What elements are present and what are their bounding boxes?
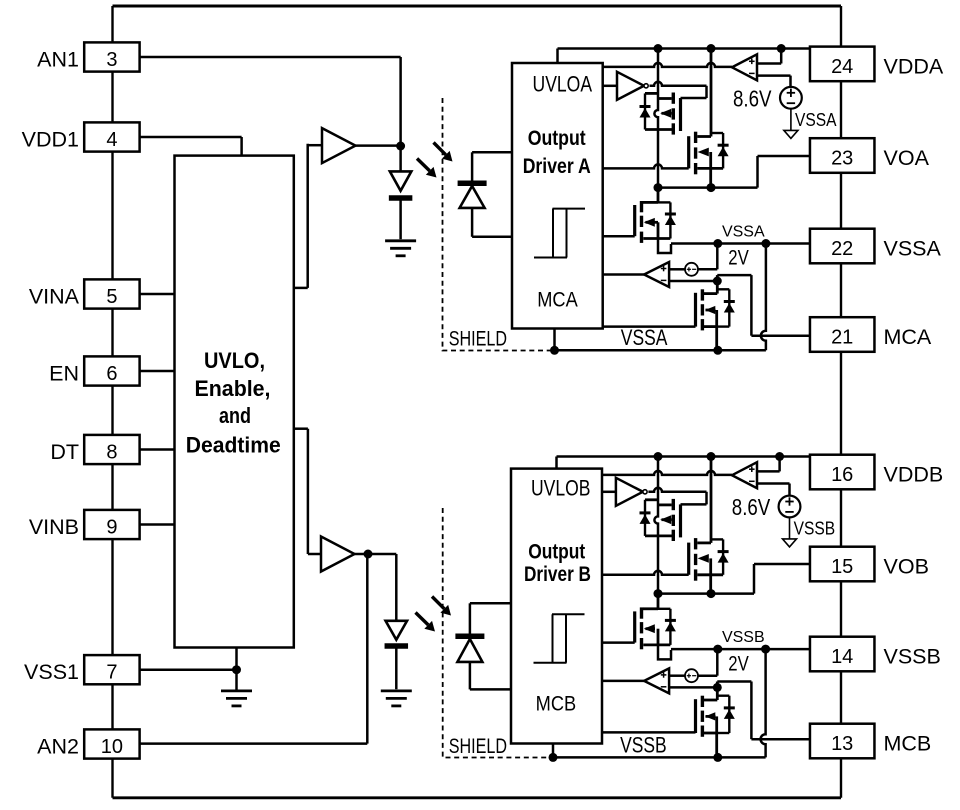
svg-text:VSSB: VSSB	[620, 732, 667, 757]
svg-text:Driver A: Driver A	[523, 154, 591, 178]
svg-text:10: 10	[101, 736, 123, 758]
svg-text:2V: 2V	[728, 653, 749, 676]
svg-text:3: 3	[106, 49, 117, 71]
svg-text:MCB: MCB	[884, 731, 932, 755]
svg-text:VSSB: VSSB	[722, 629, 765, 646]
svg-text:DT: DT	[50, 440, 79, 464]
svg-text:UVLOB: UVLOB	[531, 475, 591, 500]
svg-text:UVLO,: UVLO,	[204, 348, 265, 373]
svg-text:7: 7	[106, 662, 117, 684]
svg-text:VOB: VOB	[884, 554, 929, 578]
svg-text:MCA: MCA	[537, 289, 578, 312]
svg-text:UVLOA: UVLOA	[533, 72, 593, 97]
svg-text:VDDA: VDDA	[884, 54, 944, 78]
svg-text:8: 8	[106, 442, 117, 464]
svg-text:8.6V: 8.6V	[732, 494, 771, 520]
svg-text:5: 5	[106, 286, 117, 308]
svg-text:4: 4	[106, 129, 117, 151]
svg-text:MCB: MCB	[536, 693, 577, 716]
svg-text:EN: EN	[49, 362, 79, 386]
svg-text:VSSB: VSSB	[884, 644, 941, 668]
svg-text:VDDB: VDDB	[884, 462, 944, 486]
svg-text:SHIELD: SHIELD	[449, 735, 507, 758]
svg-text:Enable,: Enable,	[195, 376, 271, 401]
svg-text:and: and	[219, 403, 251, 428]
svg-text:AN1: AN1	[37, 48, 79, 72]
svg-text:21: 21	[831, 327, 853, 349]
svg-text:14: 14	[831, 646, 853, 668]
svg-text:VSSA: VSSA	[795, 110, 837, 130]
svg-text:Deadtime: Deadtime	[186, 433, 281, 458]
svg-text:13: 13	[831, 733, 853, 755]
svg-text:8.6V: 8.6V	[733, 86, 772, 112]
svg-text:VDD1: VDD1	[22, 128, 79, 152]
svg-text:VSSA: VSSA	[884, 236, 942, 260]
svg-text:Driver B: Driver B	[524, 562, 591, 586]
svg-text:15: 15	[831, 556, 853, 578]
svg-text:9: 9	[106, 517, 117, 539]
svg-text:VINB: VINB	[29, 515, 79, 539]
svg-text:22: 22	[831, 238, 853, 260]
svg-text:MCA: MCA	[884, 325, 932, 349]
svg-text:VSSA: VSSA	[722, 223, 765, 240]
svg-text:23: 23	[831, 148, 853, 170]
svg-text:VSS1: VSS1	[24, 660, 79, 684]
svg-text:VINA: VINA	[29, 285, 80, 309]
svg-text:VOA: VOA	[884, 146, 930, 170]
svg-text:VSSA: VSSA	[621, 325, 668, 350]
svg-text:VSSB: VSSB	[794, 519, 836, 539]
svg-text:2V: 2V	[728, 247, 749, 270]
svg-text:SHIELD: SHIELD	[449, 328, 507, 351]
svg-text:24: 24	[831, 56, 853, 78]
svg-text:Output: Output	[528, 126, 586, 150]
svg-text:6: 6	[106, 363, 117, 385]
svg-text:16: 16	[831, 464, 853, 486]
svg-text:AN2: AN2	[37, 735, 79, 759]
svg-text:Output: Output	[528, 539, 585, 563]
